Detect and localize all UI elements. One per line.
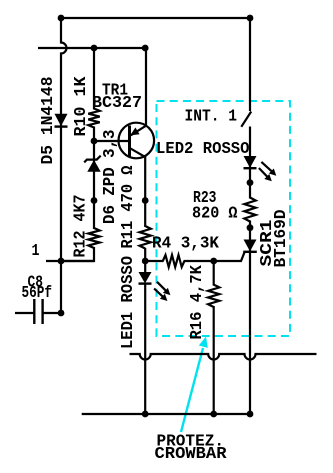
svg-text:LED1 ROSSO: LED1 ROSSO [119, 256, 138, 349]
wire switch to LED2 to R23 [249, 127, 251, 199]
wire top rail [61, 17, 250, 19]
wire R16 down across bus to bottom rail [213, 306, 215, 414]
node 1 stub wire [46, 260, 94, 262]
wire R4 left lead [145, 260, 163, 262]
LED2 arrows [259, 162, 276, 181]
wire INT column above switch [249, 18, 251, 111]
wire R10 bottom to D6 to R12 top [93, 127, 95, 230]
svg-text:56Pf: 56Pf [22, 284, 53, 303]
diode D5 [55, 114, 68, 127]
wire R4 right lead to SCR gate [184, 252, 245, 261]
svg-text:R12 4K7: R12 4K7 [72, 195, 91, 258]
svg-text:1: 1 [32, 242, 40, 261]
wire R16 top lead [213, 261, 215, 286]
svg-text:R4 3,3K: R4 3,3K [152, 235, 220, 254]
resistor R12 [88, 228, 99, 248]
LED2 [244, 156, 257, 168]
bottom rail wire [82, 413, 250, 415]
wire LED1 down across bus to bottom rail [144, 284, 146, 414]
capacitor C8 [15, 299, 61, 324]
zener D6 [84, 156, 101, 172]
svg-text:LED2 ROSSO: LED2 ROSSO [156, 140, 250, 159]
switch INT. 1 blade [241, 112, 251, 127]
LED1 arrows [154, 282, 170, 301]
wire D5 column upper with hop over second rail [61, 18, 67, 261]
wire R12 bottom corner to node 1 [61, 247, 94, 261]
wire D5 column lower to C8 node [60, 261, 62, 313]
wire second rail [38, 47, 145, 49]
wire R10 top lead [93, 48, 95, 110]
protez. crowbar callout arrow [181, 337, 208, 433]
resistor R10 [88, 109, 99, 128]
crowbar dashed box [157, 101, 291, 336]
svg-text:R11 470 Ω: R11 470 Ω [119, 166, 138, 249]
wire TR1 emitter up [145, 48, 147, 127]
LED1 [139, 272, 152, 284]
resistor R23 [244, 198, 255, 222]
svg-text:R10 1K: R10 1K [72, 76, 91, 137]
svg-text:D5 1N4148: D5 1N4148 [39, 77, 58, 165]
transistor TR1 [119, 123, 155, 159]
svg-text:BC327: BC327 [92, 94, 142, 113]
resistor R11 [140, 226, 151, 249]
bus wire with hops [130, 354, 317, 360]
wire base of TR1 [94, 140, 130, 142]
svg-text:INT. 1: INT. 1 [185, 108, 238, 127]
svg-text:CROWBAR: CROWBAR [155, 445, 228, 464]
resistor R4 [163, 255, 185, 267]
wire R11 bottom to LED1 [144, 248, 146, 273]
SCR1 thyristor [243, 240, 257, 252]
wire TR1 collector down to R11 [144, 157, 146, 227]
svg-text:BT169D: BT169D [272, 210, 291, 268]
svg-text:820 Ω: 820 Ω [192, 204, 238, 223]
wire R23 bottom through SCR to bottom rail [249, 221, 251, 415]
svg-text:R16 4,7K: R16 4,7K [188, 264, 207, 339]
svg-text:D6 ZPD 3,3: D6 ZPD 3,3 [101, 130, 120, 225]
resistor R16 [208, 285, 219, 307]
